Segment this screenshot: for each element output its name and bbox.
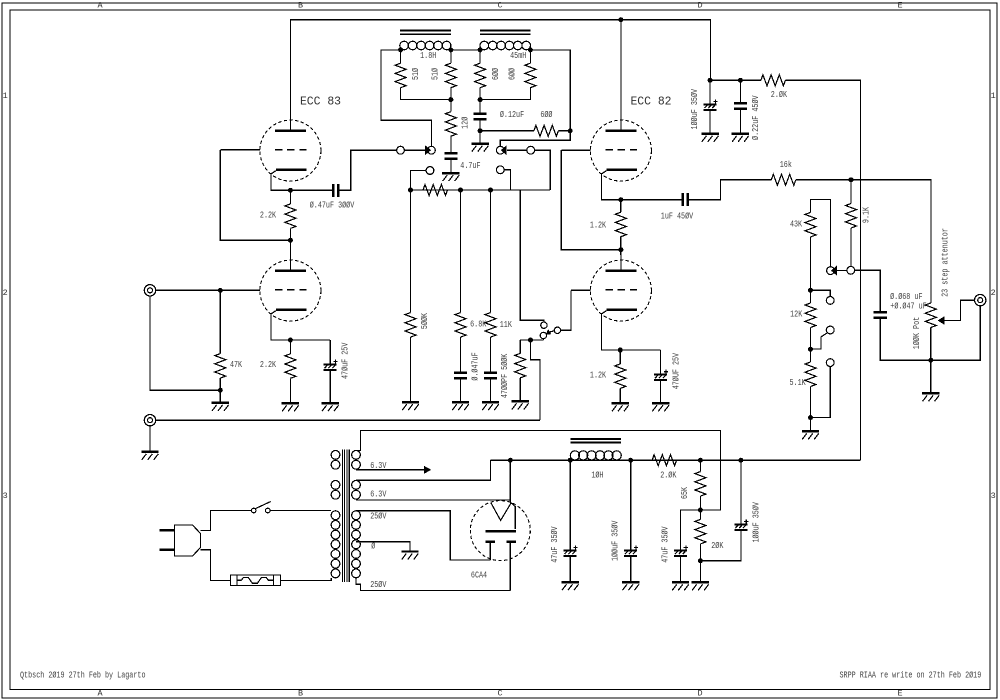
wire: 2.2K top lead: [289, 340, 291, 354]
resistor 510 (right): [445, 63, 456, 87]
wire: 6.3V winding 2 bottom to rectifier cathode: [356, 499, 510, 501]
switch SW2 lever arrow: [546, 329, 552, 335]
wire: 6.3V heater line: [356, 469, 425, 471]
wire: 47uF top lead: [569, 460, 571, 549]
resistor 120: [445, 112, 456, 137]
junction: L2 left terminal: [478, 47, 483, 52]
svg-text:1ØH: 1ØH: [591, 469, 603, 480]
switch contact SW1a-1: [397, 146, 405, 154]
wire: bypass cap to ground: [329, 371, 331, 402]
svg-text:1.2K: 1.2K: [590, 220, 606, 231]
svg-text:1ØØuF 35ØV: 1ØØuF 35ØV: [689, 89, 700, 130]
junction: ECC82 lower cathode: [618, 348, 623, 353]
wire: 1.2K top lead: [619, 350, 621, 364]
ground: 0.047uF: [452, 402, 469, 410]
svg-text:47ØUF 25V: 47ØUF 25V: [670, 353, 681, 390]
junction: ECC83 lower cathode: [288, 338, 293, 343]
svg-text:ECC 83: ECC 83: [300, 95, 341, 109]
wire: 500K to ground: [410, 337, 412, 401]
wire: 1.2K to ground: [619, 388, 621, 402]
svg-text:45mH: 45mH: [510, 50, 526, 61]
wire: 11K to 4700PF: [490, 337, 492, 372]
wire: B+ rail: [491, 459, 861, 461]
resistor 2.0K (PSU filter): [652, 455, 676, 466]
svg-text:B: B: [298, 689, 303, 699]
wire: ECC83 upper grid lead: [220, 149, 260, 151]
wire: 2.2K to ground: [289, 378, 291, 402]
wire: SW2 wiper bottom to 500K mute resistor: [520, 339, 543, 341]
svg-text:47uF 35ØV: 47uF 35ØV: [549, 526, 560, 563]
svg-text:C: C: [497, 0, 502, 10]
junction: B+ / 100uF: [708, 78, 713, 83]
wire: 47K top lead: [219, 290, 221, 353]
ground: 100uF 350V (1): [622, 582, 639, 590]
resistor 20K: [695, 519, 706, 543]
svg-text:6.3V: 6.3V: [370, 489, 386, 500]
svg-text:11K: 11K: [500, 319, 512, 330]
potentiometer wiper arrow: [938, 316, 945, 325]
junction: B+ / 100uF 2: [738, 458, 743, 463]
svg-text:3: 3: [991, 491, 996, 501]
switch wiper SW3 (attenuator arrow): [827, 266, 837, 276]
wire: 43K bottom: [810, 237, 812, 290]
junction: 12K / 5.1K: [808, 347, 813, 352]
wire: L2 left to 600: [479, 50, 481, 63]
wire: to 600 series resistor: [480, 130, 534, 132]
svg-text:43K: 43K: [790, 218, 802, 229]
wire: B+ to 2.0K: [710, 79, 761, 81]
ground: input network: [212, 403, 229, 411]
svg-text:51Ø: 51Ø: [410, 68, 421, 80]
junction: SRPP midpoint ECC82: [618, 247, 623, 252]
wire: attenuator to ground: [810, 418, 812, 431]
svg-text:25ØV: 25ØV: [370, 579, 386, 590]
capacitor 47uF 350V (bias filter, polarized): [674, 546, 688, 556]
svg-text:2.2K: 2.2K: [260, 359, 276, 370]
wire: 43K top to SW3 wiper: [811, 200, 831, 267]
switch contact SW3-2: [826, 326, 834, 334]
wire: SW2 pivot up to ECC82 lower grid: [561, 290, 571, 330]
wire: output cap bottom to jack sleeve rail: [880, 306, 980, 360]
wire: 120 to 4.7uF: [450, 136, 452, 152]
ground bus jack J2: [144, 415, 155, 426]
wire: 12K top lead: [810, 290, 812, 303]
switch contact SW2 pivot: [554, 327, 560, 333]
triode ECC82 upper (SRPP top): [590, 115, 651, 181]
wire: 100uF to ground: [630, 557, 632, 581]
svg-text:65K: 65K: [679, 487, 690, 499]
svg-text:2: 2: [991, 288, 996, 298]
svg-text:47ØuF 25V: 47ØuF 25V: [340, 342, 351, 379]
ground: 47uF 350V (1): [562, 582, 579, 590]
inductor core L1: [400, 31, 451, 35]
svg-text:6ØØ: 6ØØ: [490, 68, 501, 80]
wire: L1 left to 510: [400, 50, 402, 63]
wire: ECC82 lower grid lead: [571, 289, 590, 291]
svg-text:A: A: [97, 0, 103, 10]
ground: HT center tap: [401, 552, 418, 560]
svg-text:1: 1: [3, 91, 8, 101]
svg-text:D: D: [697, 689, 702, 699]
svg-text:6CA4: 6CA4: [471, 570, 487, 581]
choke core: [571, 439, 621, 443]
wire: 0.047uF to ground: [460, 379, 462, 401]
junction: L2 right terminal: [528, 47, 533, 52]
junction: 510 pair / 120: [448, 97, 453, 102]
junction: 0.12uF / 600 series: [478, 128, 483, 133]
wire: 0.22uF to ground: [739, 110, 741, 133]
wire: ECC82 upper cathode to 1uF: [602, 174, 683, 200]
junction: rail / 11K: [488, 188, 493, 193]
wire: to ground: [930, 360, 932, 392]
wire: 16k to 100K pot: [796, 180, 931, 303]
junction: 5.1K / ground: [808, 415, 813, 420]
svg-text:2: 2: [3, 288, 8, 298]
resistor 1.2K (ECC82 upper cathode): [615, 212, 626, 237]
triode ECC83 lower (SRPP bottom): [260, 255, 321, 321]
wire: pot wiper to output jack: [944, 300, 974, 320]
wire: jack sleeve to 47K bottom: [150, 296, 220, 390]
wire: SW3 lever: [837, 270, 847, 272]
capacitor 0.068uF +0.047uF (output): [874, 312, 887, 318]
wire: L1 right to L2 left: [451, 49, 480, 51]
svg-text:Ø.12uF: Ø.12uF: [500, 109, 525, 120]
capacitor 0.12uF: [474, 114, 487, 120]
wire: L2 right to 600: [529, 50, 531, 63]
wire: ECC82 lower cathode node: [602, 314, 661, 350]
svg-text:6ØØ: 6ØØ: [507, 68, 518, 80]
svg-text:47ØØPF 5ØØK: 47ØØPF 5ØØK: [499, 353, 510, 398]
junction: rail / 6.8K: [458, 188, 463, 193]
capacitor 100uF 350V (B+ filter, polarized): [704, 99, 718, 109]
wire: SW1b-1 contact down to node rail: [535, 150, 551, 190]
wire: 5.1K top lead: [810, 349, 812, 362]
svg-text:6ØØ: 6ØØ: [540, 109, 552, 120]
wire: switch to transformer primary: [270, 510, 331, 512]
wire: pot bottom: [930, 328, 932, 361]
svg-text:1ØØuF 35ØV: 1ØØuF 35ØV: [751, 502, 762, 543]
wire: 9.1K to attenuator contact: [850, 228, 852, 266]
switch contact SW3-0 (attenuator): [847, 266, 855, 274]
svg-text:E: E: [897, 0, 902, 10]
fuse F1: [231, 575, 281, 586]
resistor 500K: [405, 313, 416, 338]
svg-text:2ØK: 2ØK: [711, 540, 723, 551]
AC plug prongs: [160, 530, 175, 549]
triode ECC82 lower (SRPP bottom): [590, 255, 651, 321]
wire: coupling cap to selector contact: [339, 150, 397, 190]
resistor 500K (mute): [515, 353, 526, 378]
input jack J1: [144, 285, 155, 296]
svg-text:5.1K: 5.1K: [790, 377, 806, 388]
wire: L1 left to selector wiper feed: [381, 50, 431, 146]
svg-text:A: A: [97, 689, 103, 699]
junction: mute node / ground bus tap: [528, 338, 533, 343]
wire: bypass cap to ground: [660, 381, 662, 402]
svg-text:Ø.22uF 45ØV: Ø.22uF 45ØV: [750, 95, 761, 140]
junction: rail / 500K: [408, 188, 413, 193]
wire: 65K to 20K: [699, 496, 701, 519]
wire: 100uF top lead: [630, 460, 632, 549]
resistor 600 (right): [525, 63, 536, 87]
ground: ECC82 cathode resistor: [612, 403, 629, 411]
wire: 5.1K bottom: [810, 387, 812, 418]
svg-text:4.7uF: 4.7uF: [460, 160, 480, 171]
wire: L2 right down to selector wiper: [500, 50, 570, 146]
transformer T1 secondary winding (right): [352, 451, 361, 578]
wire: fuse to transformer primary bottom: [281, 578, 332, 580]
resistor 6.8K: [455, 313, 466, 338]
svg-text:D: D: [697, 0, 702, 10]
wire: RIAA shunt rail: [411, 189, 551, 191]
junction: L1 left terminal: [398, 47, 403, 52]
wire: 600 to L2 right branch: [558, 130, 570, 132]
junction: 65K / 20K / heater bias: [698, 508, 703, 513]
capacitor 0.047uF: [454, 373, 467, 379]
capacitor 4700PF: [484, 373, 497, 379]
wire: signal ground bus: [156, 419, 540, 421]
resistor 43K: [805, 212, 816, 237]
switch contact SW1b-2: [496, 166, 504, 174]
svg-text:SRPP RIAA re write on 27th Feb: SRPP RIAA re write on 27th Feb 2Ø19: [840, 670, 982, 681]
wire: rectifier cathode to B+ rail: [509, 460, 511, 502]
ground: 0.12uF node: [471, 144, 488, 152]
wire: ECC82 upper grid to SRPP midpoint: [561, 150, 621, 250]
wire: SW2 lever: [549, 331, 554, 332]
junction: 2.0K / 65K: [698, 458, 703, 463]
capacitor 0.22uF 450V: [734, 103, 747, 109]
svg-text:1uF 45ØV: 1uF 45ØV: [661, 210, 694, 221]
junction: ECC83 upper cathode node: [288, 188, 293, 193]
resistor 5.1K: [805, 362, 816, 387]
junction: ECC82 upper cathode node: [618, 197, 623, 202]
resistor 16k: [771, 174, 795, 185]
wire: plug to fuse: [201, 550, 231, 581]
junction: ECC82 plate on top bus: [618, 17, 623, 22]
wire: contact SW3-3 to ground tap: [811, 367, 831, 418]
wire: bypass cap top lead: [329, 340, 331, 364]
ground: attenuator: [802, 431, 819, 439]
resistor 9.1K: [846, 204, 857, 229]
junction: choke / 100uF: [628, 458, 633, 463]
wire: to ground: [699, 561, 701, 581]
switch wiper SW1a (arrow): [425, 145, 435, 155]
svg-text:Ø: Ø: [371, 540, 375, 551]
wire: ECC83 upper cathode to coupling cap: [271, 174, 332, 190]
wire: plug to power switch: [201, 511, 252, 531]
wire: upper cathode to 2.2K: [289, 190, 291, 204]
ground: bus jack: [141, 452, 158, 460]
inductor 45mH (L2) winding: [480, 41, 531, 50]
power switch SW4 contacts: [251, 508, 256, 513]
wire: 1uF to 16k: [689, 180, 772, 200]
ground: 500K: [402, 402, 419, 410]
wire: to ground: [219, 390, 221, 402]
transformer T1 primary winding (left): [331, 451, 340, 578]
transformer T1 core: [342, 449, 349, 582]
svg-text:2.ØK: 2.ØK: [660, 469, 676, 480]
svg-text:B: B: [298, 0, 303, 10]
wire: HT center tap to ground: [356, 542, 410, 551]
svg-text:2.2K: 2.2K: [260, 210, 276, 221]
resistor 2.0K (B+ feed): [761, 75, 785, 86]
svg-text:6.3V: 6.3V: [370, 460, 386, 471]
svg-text:23 step attenutor: 23 step attenutor: [939, 228, 950, 297]
switch contact SW3-3: [826, 359, 834, 367]
wire: B+ top bus from ECC83 plate to filter caps: [290, 20, 710, 131]
switch contact SW1b-1: [527, 146, 535, 154]
svg-text:1ØØK Pot: 1ØØK Pot: [911, 317, 922, 349]
svg-text:47K: 47K: [230, 359, 242, 370]
capacitor 100uF 350V (B+ filter 2, polarized): [734, 520, 748, 530]
choke 10H winding: [570, 451, 621, 460]
wire: SW2 wiper stub: [542, 339, 544, 340]
wire: to 120 resistor: [450, 100, 452, 112]
ground: 47uF 350V (2): [672, 582, 689, 590]
wire: 47uF to ground: [569, 557, 571, 581]
wire: 6.8K top lead: [460, 190, 462, 313]
wire: power switch lever: [256, 502, 271, 509]
ground: ECC83 bypass cap: [322, 403, 339, 411]
wire: 47uF 2 to ground: [680, 557, 682, 581]
wire: 500K top lead: [410, 190, 412, 313]
wire: 20K bottom: [699, 544, 701, 561]
wire: 100uF to ground: [709, 111, 711, 133]
junction: input / 47K: [218, 288, 223, 293]
wire: 6.3V winding 2 top to B+ rail (rectifier heater): [356, 460, 491, 480]
wire: 65K top lead: [699, 460, 701, 471]
resistor 12K: [805, 303, 816, 328]
svg-text:Qtbsch 2Ø19 27th Feb by Lagart: Qtbsch 2Ø19 27th Feb by Lagarto: [20, 670, 146, 681]
capacitor 470UF 25V (cathode bypass, polarized): [654, 370, 668, 380]
wire: attenuator contact to 0.068uF: [855, 270, 881, 311]
wire: SW1a lever to contact: [404, 149, 424, 151]
wire: 0.12uF bottom: [479, 120, 481, 131]
svg-text:3: 3: [3, 491, 8, 501]
wire: 500K mute top lead: [519, 340, 521, 353]
wire: 100uF 2 top lead: [740, 460, 742, 523]
resistor 600 (series): [534, 125, 558, 136]
AC plug P1 body: [175, 525, 201, 556]
ground: 100uF 350V: [701, 134, 718, 142]
svg-text:47uF 35ØV: 47uF 35ØV: [659, 526, 670, 563]
wire: divider to 47uF 2: [681, 510, 701, 550]
svg-text:Ø.47uF 3ØØV: Ø.47uF 3ØØV: [310, 199, 355, 210]
resistor 2.2K (ECC83 upper cathode): [285, 204, 296, 229]
junction: B+ / 0.22uF: [738, 78, 743, 83]
wire: 6.3V winding top to 65K/20K divider (heater bias): [356, 431, 721, 510]
wire: SW1b-2 contact down to node rail: [504, 170, 510, 190]
wire: to 0.12uF: [479, 100, 481, 113]
triode ECC83 upper (SRPP top): [260, 115, 321, 181]
wire: contact SW3-2 to tap: [811, 333, 828, 349]
capacitor 47uF 350V (reservoir, polarized): [564, 546, 578, 556]
wire: 6.8K to 0.047uF: [460, 337, 462, 372]
wire: mute node to ground bus: [531, 340, 541, 420]
ground: 0.22uF 450V: [732, 134, 749, 142]
svg-text:9.1K: 9.1K: [860, 207, 871, 223]
wire: 4700PF to ground: [490, 379, 492, 401]
junction: SRPP midpoint ECC83: [288, 238, 293, 243]
wire: SW1a-2 contact down to node rail: [411, 171, 427, 191]
resistor 47K (grid leak): [215, 354, 226, 379]
wire: 1.2K to ECC82 lower plate: [620, 237, 622, 255]
svg-text:ECC 82: ECC 82: [630, 95, 671, 109]
wire: 250V top to rectifier plate 1: [356, 511, 490, 560]
wire: B+ feed from PSU (long vertical): [785, 80, 860, 460]
svg-text:1.8H: 1.8H: [420, 50, 436, 61]
wire: tap to contact SW3-1: [811, 290, 831, 296]
wire: rail down to mute contact: [520, 190, 544, 322]
svg-text:E: E: [897, 689, 902, 699]
svg-text:1.2K: 1.2K: [590, 370, 606, 381]
resistor (rail series): [423, 185, 448, 196]
wire: to ground: [479, 131, 481, 143]
svg-text:1ØØuF 35ØV: 1ØØuF 35ØV: [609, 520, 620, 561]
svg-text:25ØV: 25ØV: [370, 510, 386, 521]
wire: primary bottom stub: [330, 578, 332, 580]
wire: 2.2K to ECC83 lower plate: [289, 228, 291, 255]
junction: B+ / 47uF / choke: [568, 458, 573, 463]
svg-text:Ø.Ø47uF: Ø.Ø47uF: [469, 352, 480, 381]
wire: 100uF 2 bottom to divider ground: [700, 531, 741, 561]
resistor 510 (left): [395, 63, 406, 87]
junction: 20K / 100uF 2 / ground: [698, 558, 703, 563]
wire: 47K bottom lead: [219, 378, 221, 390]
wire: 0.22uF top lead: [739, 80, 741, 103]
ground: ECC83 cathode resistor: [282, 403, 299, 411]
svg-text:2.ØK: 2.ØK: [771, 89, 787, 100]
svg-text:+Ø.Ø47 uF: +Ø.Ø47 uF: [890, 301, 927, 312]
wire: 600 pair bottom: [480, 88, 530, 100]
wire: bypass cap top lead: [660, 350, 662, 374]
capacitor 470uF 25V (cathode bypass, polarized): [324, 360, 338, 370]
resistor 1.2K (ECC82 lower cathode): [615, 364, 626, 389]
junction: 600 / L2 right: [568, 128, 573, 133]
ground: output network: [922, 393, 939, 401]
wire: J2 to ground: [149, 426, 151, 451]
switch contact SW3-1: [826, 297, 834, 305]
switch wiper SW1b (arrow): [496, 145, 506, 155]
wire: ECC82 plate lead from bus: [620, 20, 622, 131]
svg-text:6.8K: 6.8K: [470, 319, 486, 330]
svg-text:12Ø: 12Ø: [459, 117, 470, 129]
inductor 1.8H (L1) winding: [400, 41, 451, 50]
output jack J3: [975, 294, 986, 305]
capacitor 4.7uF: [444, 153, 457, 159]
wire: 4.7uF to ground: [450, 160, 452, 172]
junction: 43K / 12K: [808, 288, 813, 293]
ground: 4700PF: [482, 402, 499, 410]
svg-text:C: C: [497, 689, 502, 699]
capacitor 0.47uF 300V (coupling): [333, 184, 338, 197]
wire: ECC83 lower cathode node: [271, 314, 330, 340]
inductor core L2: [480, 31, 530, 35]
svg-text:1: 1: [991, 91, 996, 101]
junction: 600 pair / 0.12uF: [478, 97, 483, 102]
junction: 47K bottom / jack ground: [218, 388, 223, 393]
svg-text:51Ø: 51Ø: [429, 68, 440, 80]
resistor 65K: [695, 472, 706, 497]
rectifier tube 6CA4: [470, 501, 530, 591]
junction: 16k / 9.1K: [849, 177, 854, 182]
ground: divider: [692, 582, 709, 590]
wire: L1 right to 510: [450, 50, 452, 63]
junction: rectifier output: [508, 458, 513, 463]
wire: ECC83 upper grid to SRPP midpoint: [220, 150, 290, 241]
arrow: 6.3V heater feed: [424, 466, 431, 474]
svg-text:12K: 12K: [790, 309, 802, 320]
